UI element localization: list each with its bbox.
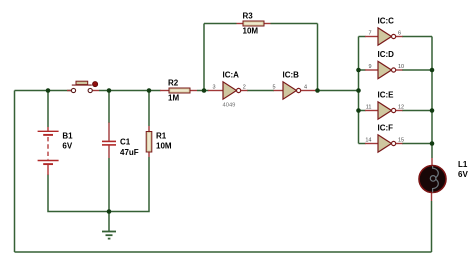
svg-text:10: 10 (398, 64, 404, 70)
wire: IC:E input stub (359, 110, 366, 112)
node bank feed (356, 88, 361, 93)
svg-text:12: 12 (398, 105, 404, 111)
inverter IC:F (378, 135, 396, 152)
wire: right rail down to lamp (431, 144, 433, 159)
svg-text:IC:A: IC:A (223, 71, 240, 80)
svg-text:IC:D: IC:D (378, 50, 395, 59)
wire: C1 node to R2 (109, 90, 161, 92)
wire: bottom long horizontal (15, 251, 432, 253)
resistor R3 leads (237, 23, 244, 25)
svg-text:IC:F: IC:F (378, 124, 394, 133)
node feedback left (202, 88, 207, 93)
resistor R2 leads (160, 90, 169, 92)
svg-text:3: 3 (212, 85, 215, 91)
node IC:F output (430, 141, 435, 146)
push button switch (71, 81, 97, 92)
resistor R1 (146, 132, 152, 153)
svg-text:IC:B: IC:B (283, 71, 300, 80)
svg-text:R1: R1 (156, 131, 167, 140)
svg-text:10M: 10M (156, 142, 172, 151)
inverter IC:C (378, 28, 396, 45)
node ground tap (107, 209, 112, 214)
push button SW leads (67, 90, 71, 92)
wire: battery top drop (47, 91, 49, 128)
wire: top horizontal from left rail to switch (15, 90, 72, 92)
wire: bottom middle wire to R1 corner (109, 157, 149, 212)
ground (102, 212, 116, 239)
inverter IC:C leads (365, 36, 378, 38)
inverter IC:B leads (274, 90, 284, 92)
svg-text:R3: R3 (243, 11, 254, 20)
resistor R1 leads (148, 126, 150, 132)
svg-text:6: 6 (398, 31, 401, 37)
node C1 tap (107, 88, 112, 93)
node IC:E output (430, 108, 435, 113)
svg-text:11: 11 (366, 105, 372, 111)
svg-text:14: 14 (365, 138, 371, 144)
inverter IC:F leads (365, 143, 378, 145)
svg-text:2: 2 (243, 85, 246, 91)
svg-text:4049: 4049 (223, 103, 236, 109)
wire: IC:D output to right rail (402, 69, 432, 71)
inverter IC:D leads (365, 69, 378, 71)
inverter IC:B (283, 82, 301, 99)
node IC:E input (356, 108, 361, 113)
wire: lamp bottom to bottom wire (431, 201, 433, 252)
wire: battery bottom to bottom middle wire (48, 175, 109, 212)
inverter IC:D (378, 61, 396, 78)
svg-text:6V: 6V (62, 142, 72, 151)
wire: IC:C input stub (359, 36, 366, 38)
op-amp U1: inverter IC:A leads (208, 90, 223, 92)
node R1 tap (147, 88, 152, 93)
wire: R1 top drop (148, 91, 150, 127)
svg-text:4: 4 (304, 85, 307, 91)
battery B1 leads (47, 127, 49, 131)
svg-text:B1: B1 (62, 131, 73, 140)
resistor R2 (169, 88, 190, 93)
capacitor C1 (102, 141, 116, 145)
svg-text:R2: R2 (168, 78, 179, 87)
wire: switch to C1 node (99, 90, 109, 92)
wire: IC:D input stub (359, 69, 366, 71)
svg-text:IC:C: IC:C (378, 17, 395, 26)
battery B1 (38, 131, 59, 164)
svg-text:5: 5 (272, 85, 275, 91)
node feedback right (315, 88, 320, 93)
wire: C1 bottom drop (108, 158, 110, 212)
svg-text:7: 7 (368, 31, 371, 37)
capacitor C1 leads (108, 123, 110, 141)
resistor R3 (243, 21, 264, 26)
node IC:D output (430, 68, 435, 73)
wire: IC:F input stub (359, 143, 366, 145)
wire: feedback top horizontal to R3 (204, 23, 237, 25)
svg-text:15: 15 (398, 138, 404, 144)
wire: IC:F output to right rail (402, 143, 432, 145)
node IC:D input (356, 68, 361, 73)
inverter IC:E leads (365, 110, 378, 112)
svg-text:IC:E: IC:E (378, 91, 395, 100)
node battery tap (46, 88, 51, 93)
svg-text:C1: C1 (120, 138, 131, 147)
wire: feedback left vertical (203, 24, 205, 91)
wire: feedback right vertical (317, 24, 319, 91)
svg-text:L1: L1 (458, 160, 468, 169)
lamp L1 (419, 166, 446, 193)
svg-text:6V: 6V (458, 170, 468, 179)
wire: C1 top drop (108, 91, 110, 124)
inverter IC:E (378, 102, 396, 119)
svg-text:10M: 10M (243, 27, 259, 36)
wire: bank right rail (431, 37, 433, 144)
svg-text:47uF: 47uF (120, 148, 139, 157)
wire: bank left rail (358, 37, 360, 144)
wire: R3 to feedback right corner (271, 23, 318, 25)
wire: R2 to IC:A input (197, 90, 209, 92)
wire: IC:E output to right rail (402, 110, 432, 112)
wire: left rail vertical (14, 91, 16, 253)
wire: IC:C output to right rail (402, 36, 432, 38)
svg-text:1M: 1M (168, 94, 179, 103)
lamp L1 leads (431, 158, 433, 166)
wire: IC:B output to bank input rail (317, 90, 359, 92)
svg-text:9: 9 (368, 64, 371, 70)
wire: IC:A output to IC:B input (247, 90, 274, 92)
inverter IC:A (223, 82, 241, 99)
